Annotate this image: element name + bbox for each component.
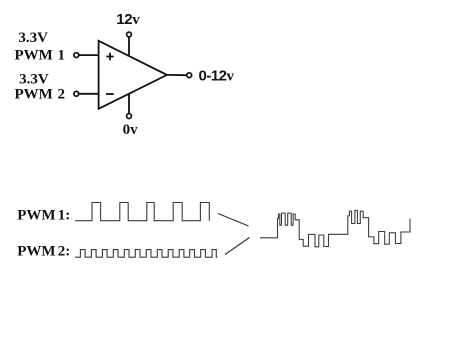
svg-text:PWM: PWM — [15, 87, 53, 103]
negative supply pin wire — [128, 94, 130, 114]
output terminal circle — [187, 73, 192, 78]
wire input 1 — [79, 54, 99, 56]
svg-text:1: 1 — [58, 48, 66, 64]
plus sign (non-inverting input) — [106, 53, 113, 60]
svg-text:3.3V: 3.3V — [19, 71, 49, 87]
svg-text:0v: 0v — [123, 122, 139, 138]
wire input 2 — [79, 93, 99, 95]
pointer line from PWM2 to combined wave — [225, 238, 250, 255]
positive supply pin wire — [128, 37, 130, 56]
negative supply terminal circle — [127, 114, 132, 119]
input terminal 2 (open circle) — [74, 91, 79, 96]
input terminal 1 (open circle) — [74, 53, 79, 58]
svg-text:3.3V: 3.3V — [18, 30, 48, 46]
svg-text:0-12v: 0-12v — [199, 67, 235, 84]
PWM 1 waveform trace — [75, 203, 209, 221]
op-amp U1 triangle — [99, 41, 167, 109]
combined output waveform trace — [260, 210, 410, 246]
output wire — [167, 74, 187, 76]
svg-text:12v: 12v — [116, 11, 140, 28]
svg-text:2: 2 — [58, 87, 66, 103]
svg-text:1:: 1: — [58, 208, 71, 224]
svg-text:PWM: PWM — [15, 48, 53, 64]
PWM 2 waveform trace — [75, 250, 217, 258]
positive supply terminal circle — [127, 32, 132, 37]
svg-text:2:: 2: — [58, 243, 71, 259]
minus sign (inverting input) — [106, 93, 114, 95]
pointer line from PWM1 to combined wave — [218, 214, 249, 227]
svg-text:PWM: PWM — [17, 208, 55, 224]
svg-text:PWM: PWM — [17, 243, 55, 259]
